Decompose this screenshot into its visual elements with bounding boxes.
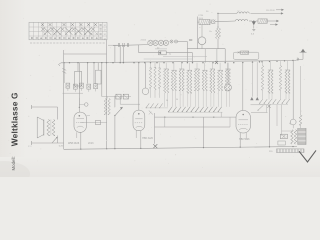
power transformer [291, 130, 294, 144]
paper background [0, 0, 320, 177]
svg-text:6,3V: 6,3V [59, 145, 64, 147]
AVC line [64, 53, 107, 55]
svg-text:Modell:: Modell: [11, 156, 16, 170]
svg-text:W58 2K26: W58 2K26 [68, 142, 80, 145]
svg-text:2-n: 2-n [28, 145, 32, 148]
tube V2 [133, 110, 145, 131]
oscillator coils [262, 62, 264, 66]
svg-text:Weltklasse G: Weltklasse G [10, 92, 20, 146]
svg-text:HBII 3x26: HBII 3x26 [142, 137, 153, 140]
paper speckle [103, 27, 106, 30]
band coil assembly [150, 63, 152, 68]
IF coil L5 [104, 99, 106, 115]
tube V1 AF7 [74, 112, 86, 132]
svg-text:110 220V: 110 220V [266, 10, 275, 12]
tube V3 output [236, 111, 251, 134]
svg-text:30: 30 [166, 100, 168, 102]
AF coupling wires [155, 116, 237, 118]
loudspeaker & transformer [32, 106, 58, 108]
antenna RF network [63, 54, 65, 143]
band switch S1 [116, 94, 121, 99]
diode load line [81, 122, 107, 124]
mains dropper block [197, 17, 199, 49]
svg-text:2K26: 2K26 [88, 142, 94, 145]
table caption micro-text [30, 42, 32, 44]
svg-text:HBII 5x26: HBII 5x26 [239, 138, 250, 141]
chassis bus [64, 147, 297, 150]
tuning gang / dial drive [106, 40, 108, 63]
mains cord arrow [299, 150, 316, 162]
HT bus [61, 61, 295, 63]
detector rail [295, 59, 299, 60]
svg-text:Dr: Dr [210, 30, 213, 33]
voltage selector loop [233, 52, 258, 59]
svg-text:2x500: 2x500 [141, 40, 147, 42]
wave-band switch contacts [146, 103, 149, 107]
tone corrector [251, 112, 268, 114]
band-switch position table [29, 22, 107, 40]
svg-text:30: 30 [176, 99, 178, 101]
mains link wire [187, 48, 225, 50]
